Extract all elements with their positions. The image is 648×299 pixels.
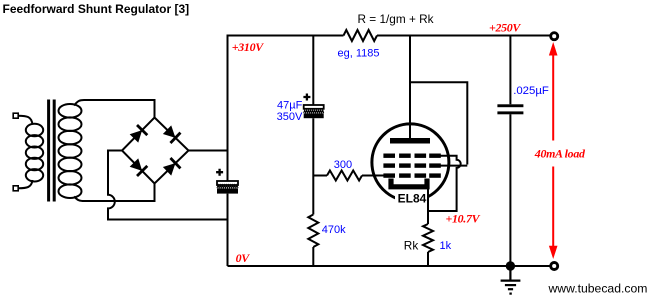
svg-text:Rk: Rk bbox=[404, 238, 419, 252]
wire plate branch bbox=[409, 36, 411, 140]
svg-text:R = 1/gm + Rk: R = 1/gm + Rk bbox=[358, 12, 434, 26]
cathode bbox=[391, 179, 427, 187]
svg-text:1k: 1k bbox=[440, 240, 452, 252]
svg-text:47µF: 47µF bbox=[277, 100, 303, 112]
wire 0V rail bbox=[228, 265, 551, 267]
svg-text:Feedforward Shunt Regulator [3: Feedforward Shunt Regulator [3] bbox=[3, 2, 190, 16]
diode D2 (top-right edge) bbox=[162, 125, 180, 143]
wire Rk to 0V bbox=[427, 252, 429, 266]
junction dot bbox=[506, 261, 515, 270]
transformer T1 bbox=[13, 100, 81, 202]
wire top rail left segment bbox=[228, 35, 344, 37]
svg-text:0V: 0V bbox=[236, 251, 251, 265]
resistor R4 Rk 1k bbox=[423, 224, 433, 252]
plate bar bbox=[390, 138, 430, 144]
primary terminal bottom bbox=[13, 186, 18, 191]
svg-text:www.tubecad.com: www.tubecad.com bbox=[548, 282, 648, 296]
svg-text:EL84: EL84 bbox=[398, 192, 427, 206]
svg-text:.025µF: .025µF bbox=[513, 85, 549, 97]
wire 470k to 0V bbox=[312, 247, 314, 266]
terminal bottom bbox=[551, 263, 558, 270]
node +310V rail: left vertical bbox=[227, 35, 229, 182]
wire secondary bottom to bridge bbox=[74, 184, 155, 202]
svg-text:300: 300 bbox=[334, 159, 352, 171]
wire C1 bottom to 0V rail bbox=[227, 194, 229, 266]
EL84 label bbox=[395, 191, 429, 205]
resistor R3 470k bbox=[308, 215, 318, 248]
primary bottom lead bbox=[18, 180, 32, 188]
resistor R (series) bbox=[344, 30, 378, 41]
capacitor C2 47uF bbox=[303, 94, 323, 119]
resistor R2 300 bbox=[327, 171, 362, 181]
capacitor C1 (reservoir) bbox=[216, 169, 238, 194]
secondary winding bbox=[59, 104, 82, 118]
primary winding bbox=[26, 124, 43, 136]
diode D4 (bottom-right edge) bbox=[162, 158, 180, 176]
capacitor C2 47uF branch wire top bbox=[312, 36, 314, 106]
grid g2 row bbox=[383, 163, 440, 167]
primary top lead bbox=[18, 116, 32, 125]
wire C2 bottom down to g1 node and 470k bbox=[312, 118, 314, 214]
svg-text:470k: 470k bbox=[322, 224, 346, 236]
primary terminal top bbox=[13, 113, 18, 118]
wire top rail right segment bbox=[377, 35, 550, 37]
svg-text:+310V: +310V bbox=[232, 40, 264, 54]
capacitor C3 .025uF bbox=[497, 104, 523, 107]
grid g1 row bbox=[383, 173, 440, 177]
wire g2 to plate strap bbox=[410, 82, 467, 164]
wire 300 to grid g1 bbox=[362, 175, 384, 177]
wire g1 node to tube bbox=[313, 175, 327, 177]
wire bridge - return with hop over AC wire bbox=[108, 151, 228, 220]
wire C3 to 0V rail bbox=[509, 114, 511, 266]
g3 lead with hop over g2 lead bbox=[428, 156, 461, 211]
svg-text:40mA load: 40mA load bbox=[534, 146, 586, 160]
svg-text:350V: 350V bbox=[277, 111, 303, 123]
load arrow head bottom bbox=[549, 246, 558, 259]
svg-text:+250V: +250V bbox=[489, 21, 521, 35]
grid g3 row bbox=[383, 154, 440, 158]
svg-text:eg, 1185: eg, 1185 bbox=[338, 47, 380, 59]
wire bridge + output to left rail bbox=[189, 150, 228, 152]
terminal top bbox=[551, 33, 558, 40]
load arrow head top bbox=[549, 42, 558, 56]
load arrow (red) bbox=[552, 55, 554, 247]
bridge rectifier diamond bbox=[122, 118, 189, 184]
g2 lead bbox=[433, 165, 467, 167]
diode D1 (left-top edge) bbox=[129, 125, 147, 143]
wire secondary top to bridge bbox=[74, 100, 155, 118]
ground bbox=[501, 266, 521, 294]
tube U1 EL84 bbox=[372, 124, 449, 201]
svg-text:+10.7V: +10.7V bbox=[446, 212, 481, 226]
diode D3 (left-bottom edge) bbox=[129, 158, 147, 176]
wire cathode down bbox=[427, 189, 429, 225]
core bbox=[47, 100, 50, 202]
wire rail to C3 bbox=[509, 36, 511, 105]
